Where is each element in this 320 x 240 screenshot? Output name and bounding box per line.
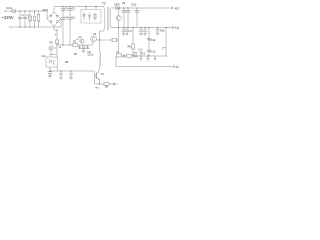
wire AC top [5,10,47,12]
svg-text:VD5: VD5 [114,3,120,7]
feedback right vertical x=166 [165,28,167,57]
ground stub x=141 on row [140,56,143,60]
optocoupler U1 box [46,57,58,67]
output filter capacitor column x=137 [136,8,138,28]
hanger capacitor x=157.5 below rail [155,28,159,35]
transformer T1 secondary winding [110,8,111,28]
ground under sense resistor [105,85,108,88]
hanger capacitor x=141 below rail [139,28,143,36]
fuse FU1 [12,10,16,12]
svg-text:VD1: VD1 [43,8,49,12]
series capacitor on sense row [113,83,115,86]
snubber box [81,10,101,24]
output terminal +U top [171,7,173,9]
wire base drop x=94.5 [94,71,96,84]
wire AC top to bridge left corner [46,11,48,19]
capacitor hanging at x=50 [48,72,52,73]
wire feedback winding hook to collector [98,67,101,73]
svg-text:C10: C10 [131,3,137,7]
wire collector riser x=99 [99,31,101,53]
svg-text:+: + [55,33,57,37]
wire bridge plus to top DC rail [54,7,104,13]
TL431 style mark [139,49,143,52]
bridge rectifier VD1 [47,12,61,26]
resistor R at x=113 on y=40 wire [112,38,117,41]
svg-text:T1: T1 [102,2,106,6]
svg-text:+U: +U [175,26,180,30]
capacitor C (column x=35) [34,11,36,27]
snubber diode [83,13,86,21]
capacitor C2 (column x=25) [24,11,26,27]
wire bridge minus down and to startup line [54,26,57,40]
wire V2 collector to y=40 wire [97,39,113,41]
transistor V2 circle [91,36,97,42]
base rail y=71 [50,70,94,72]
svg-text:C12: C12 [151,39,156,42]
capacitor hanging at x=61 [59,71,63,79]
svg-text:~220V: ~220V [2,15,14,20]
snubber capacitor [88,13,91,21]
secondary lower rail y=27.5 [111,27,172,29]
bottom output rail [116,66,173,68]
power transistor V4 [95,72,97,79]
svg-text:R1: R1 [50,41,54,45]
series capacitor on row x=124 [123,54,125,57]
wire V3 down to node [50,50,52,54]
wire emitter to sense row [99,80,101,85]
svg-text:FU1: FU1 [7,6,13,10]
secondary diode VD5 [111,7,171,9]
output terminal -U bottom [173,66,175,68]
transistor V1 small circle [80,39,84,43]
box at left of feedback row [116,54,121,57]
output filter capacitor column x=124 [123,8,125,28]
wire row to bottom rail [115,56,117,67]
diode on feedback row [134,55,137,58]
text labels [2,2,180,90]
feedback row y=56 [116,55,166,57]
hanger capacitor x=123.5 below rail [121,28,125,36]
capacitor hanging at x=71 [69,71,73,79]
wire drops into opto box [50,55,57,58]
capacitor column C5/C6 x=70 [69,7,71,46]
snubber resistor [94,13,96,21]
capacitor marks C8 [88,53,92,56]
emitter sense row y=84 [95,83,118,85]
wire V2 emitter drop [92,42,94,45]
output terminal +U2 mid [172,27,174,29]
svg-text:R10: R10 [160,30,165,33]
hanger capacitor x=145 below rail [143,28,147,36]
wire junction dots [19,6,166,85]
ground stub x=148 on row [147,56,150,60]
svg-text:V1: V1 [79,35,83,39]
svg-text:V2: V2 [93,32,97,36]
svg-text:U1: U1 [42,54,46,58]
resistor R2 vertical x=38.5 [38,11,40,27]
ground stub x=155 on row [154,56,157,60]
resistor on feedback row [127,55,132,58]
resistor R (column x=30) [29,11,31,27]
divider column x=149 with two capacitors [148,28,150,57]
feedback element circle x=119 [118,8,120,56]
transformer T1 feedback winding [100,53,101,67]
divider column x=133 with resistor [132,28,134,57]
startup resistor R1 on x=57 [56,40,59,44]
transformer core [107,7,109,30]
svg-text:C13: C13 [151,50,156,53]
wire control row y=45 [57,44,93,46]
output filter capacitor column x=128 [127,8,129,28]
hanger capacitor x=127 below rail [125,28,129,36]
sense resistor box [104,83,109,86]
capacitor column C3/C4 x=63 [62,7,64,46]
pot wiper mark on x=166 [163,47,166,50]
ground under control cluster [82,51,85,53]
transformer T1 primary winding [100,7,106,32]
transistor V3 circle [49,46,53,50]
svg-text:R12: R12 [141,52,146,55]
svg-text:+U: +U [174,6,179,10]
resistor on control row [73,44,78,47]
wire V3 to startup line [53,47,57,49]
svg-text:-U: -U [175,65,179,69]
capacitor C1 (column x=20) [19,11,21,27]
wire AC bottom [10,26,61,28]
wire opto pins to rail [50,67,58,71]
sub components hanging below control row [79,45,90,51]
wire node row y=54.5 [51,43,57,55]
wire bridge right corner to AC bottom [60,19,62,27]
